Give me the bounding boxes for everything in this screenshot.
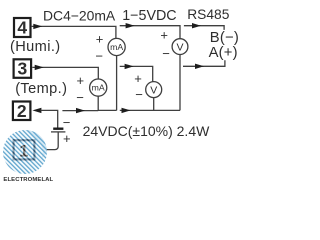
svg-text:B(−): B(−) <box>210 30 239 46</box>
arrowhead on RS485 wire <box>192 23 201 28</box>
terminal box 2 <box>13 101 31 121</box>
arrowhead into box 1 <box>37 147 46 152</box>
svg-text:+: + <box>96 32 104 47</box>
voltmeter V1 <box>172 39 188 55</box>
svg-text:+: + <box>77 73 85 88</box>
svg-text:+: + <box>134 71 142 86</box>
svg-text:mA: mA <box>92 83 105 93</box>
ammeter mA1 <box>108 38 125 55</box>
svg-text:−: − <box>135 87 143 102</box>
svg-text:V: V <box>176 42 183 54</box>
svg-text:+: + <box>160 28 168 43</box>
bus wire left segment <box>62 110 98 112</box>
arrowhead on bus right <box>122 108 131 113</box>
arrowhead on 1-5VDC ch1 wire <box>126 23 135 28</box>
arrowhead on box4 wire <box>33 24 42 29</box>
wire V1 rail down to bus <box>179 55 181 111</box>
ammeter mA2 <box>90 79 107 96</box>
bus wire right segment <box>120 109 180 111</box>
wire V2 rail down to bus <box>153 98 155 111</box>
logo globe <box>3 130 47 174</box>
arrowhead into box 2 <box>32 108 41 113</box>
svg-text:−: − <box>162 46 170 61</box>
arrowhead on box3 wire <box>35 65 44 70</box>
arrowhead on A(+) wire <box>195 64 204 69</box>
svg-text:A(+): A(+) <box>209 45 238 61</box>
svg-text:24VDC(±10%) 2.4W: 24VDC(±10%) 2.4W <box>83 123 211 139</box>
battery positive plate <box>51 131 65 133</box>
terminal box 1 <box>3 130 47 174</box>
svg-text:4: 4 <box>17 18 27 38</box>
battery negative plate <box>53 127 63 129</box>
wire mA2 rail down to bus <box>98 96 116 110</box>
svg-text:DC4−20mA: DC4−20mA <box>43 8 116 24</box>
arrowhead on bus left <box>76 108 85 113</box>
terminal box 3 <box>14 59 32 79</box>
wire battery to box1 <box>45 132 59 149</box>
wire box2 to battery <box>41 110 58 127</box>
svg-text:(Humi.): (Humi.) <box>10 39 61 55</box>
svg-text:3: 3 <box>18 59 28 79</box>
svg-text:RS485: RS485 <box>187 7 230 22</box>
wire A(+) from V1 rail <box>183 60 225 66</box>
wire 1-5VDC ch2 to V2 <box>120 66 153 81</box>
svg-text:1−5VDC: 1−5VDC <box>122 8 176 24</box>
terminal box 4 <box>14 18 31 38</box>
svg-text:+: + <box>63 131 71 146</box>
svg-text:mA: mA <box>110 42 123 52</box>
voltmeter V2 <box>146 82 162 98</box>
svg-text:−: − <box>63 115 71 130</box>
svg-text:−: − <box>95 48 103 63</box>
wire mA1 rail down to bus <box>116 56 118 111</box>
svg-text:ELECTROMELAL: ELECTROMELAL <box>3 177 53 183</box>
wire box3 to mA2 <box>32 67 98 79</box>
svg-text:2: 2 <box>17 101 27 121</box>
svg-text:(Temp.): (Temp.) <box>15 81 67 97</box>
arrowhead on 1-5VDC ch2 wire <box>125 64 134 69</box>
svg-text:V: V <box>150 85 157 97</box>
svg-text:−: − <box>76 90 84 105</box>
wire box4 to mA1 <box>31 26 116 38</box>
wire 1-5VDC ch1 to V1 <box>120 26 180 39</box>
wire RS485 to B(-) <box>184 26 224 30</box>
